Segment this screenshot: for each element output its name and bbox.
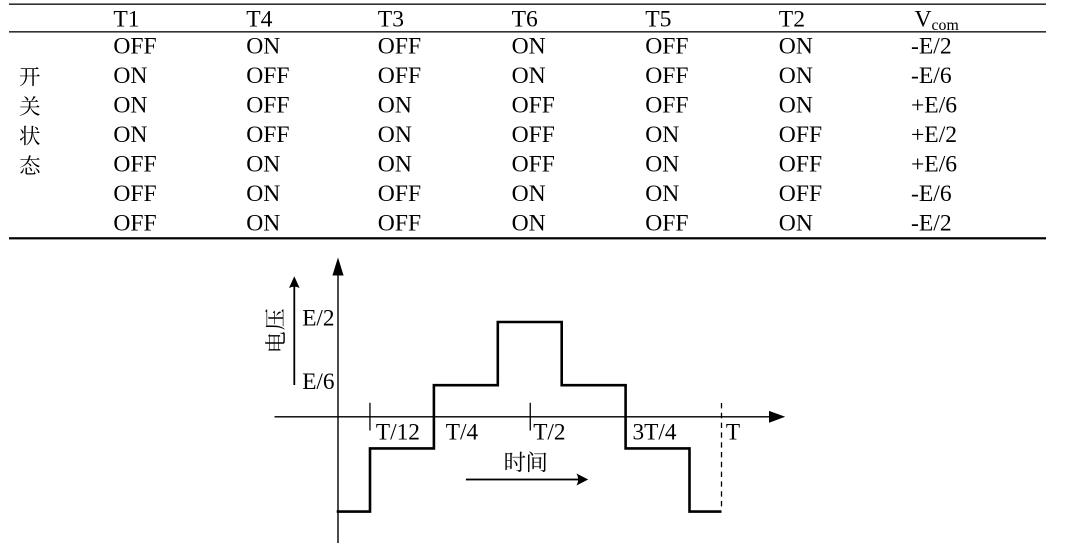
row label 状	[20, 126, 40, 146]
label 电压 char 电	[265, 332, 285, 350]
svg-text:+E/6: +E/6	[911, 152, 957, 178]
svg-text:-E/2: -E/2	[911, 210, 952, 236]
svg-text:3T/4: 3T/4	[633, 419, 677, 445]
svg-text:OFF: OFF	[246, 122, 289, 148]
x-axis line	[275, 416, 771, 417]
svg-text:ON: ON	[512, 181, 546, 207]
label 时间 char 时	[505, 452, 525, 472]
svg-text:T: T	[726, 419, 740, 445]
svg-text:OFF: OFF	[645, 210, 688, 236]
label 时间 char 间	[528, 451, 546, 472]
svg-text:ON: ON	[645, 122, 679, 148]
svg-text:OFF: OFF	[378, 34, 421, 60]
svg-text:-E/2: -E/2	[911, 34, 952, 60]
label 电压 char 压	[265, 309, 285, 329]
svg-text:-E/6: -E/6	[911, 181, 952, 207]
svg-text:ON: ON	[645, 152, 679, 178]
svg-text:ON: ON	[512, 63, 546, 89]
svg-text:T5: T5	[645, 6, 671, 32]
svg-text:OFF: OFF	[378, 210, 421, 236]
svg-text:ON: ON	[113, 122, 147, 148]
svg-text:OFF: OFF	[113, 34, 156, 60]
svg-text:T2: T2	[779, 6, 805, 32]
svg-text:T6: T6	[512, 6, 538, 32]
svg-text:ON: ON	[246, 181, 280, 207]
table bottom rule	[9, 237, 1046, 239]
svg-text:OFF: OFF	[645, 93, 688, 119]
svg-text:OFF: OFF	[779, 152, 822, 178]
svg-text:OFF: OFF	[645, 63, 688, 89]
y-axis line	[337, 272, 338, 543]
svg-text:ON: ON	[779, 34, 813, 60]
svg-text:E/6: E/6	[302, 369, 334, 395]
svg-text:OFF: OFF	[113, 210, 156, 236]
svg-text:OFF: OFF	[779, 122, 822, 148]
svg-text:ON: ON	[645, 181, 679, 207]
svg-text:ON: ON	[113, 93, 147, 119]
svg-text:ON: ON	[512, 210, 546, 236]
svg-text:OFF: OFF	[113, 152, 156, 178]
svg-text:ON: ON	[246, 152, 280, 178]
svg-text:ON: ON	[113, 63, 147, 89]
svg-text:+E/6: +E/6	[911, 93, 957, 119]
svg-text:OFF: OFF	[512, 152, 555, 178]
svg-text:ON: ON	[246, 34, 280, 60]
svg-text:T3: T3	[378, 6, 404, 32]
table header rule	[9, 31, 1046, 32]
svg-text:OFF: OFF	[246, 93, 289, 119]
y-axis arrowhead	[332, 258, 343, 276]
svg-text:ON: ON	[378, 93, 412, 119]
svg-text:OFF: OFF	[645, 34, 688, 60]
x-axis arrowhead	[769, 411, 785, 423]
svg-text:T4: T4	[246, 6, 272, 32]
svg-text:OFF: OFF	[378, 181, 421, 207]
svg-text:ON: ON	[378, 152, 412, 178]
svg-text:T/2: T/2	[533, 419, 565, 445]
dashed line at T	[721, 403, 723, 507]
row label 开	[20, 67, 40, 86]
table top rule	[9, 4, 1046, 5]
svg-text:-E/6: -E/6	[911, 63, 952, 89]
svg-text:ON: ON	[779, 63, 813, 89]
svg-text:T/4: T/4	[446, 419, 479, 445]
svg-text:OFF: OFF	[512, 122, 555, 148]
svg-text:T/12: T/12	[376, 419, 420, 445]
waveform staircase	[337, 322, 722, 512]
tick T/12	[369, 403, 370, 431]
svg-text:OFF: OFF	[246, 63, 289, 89]
svg-text:ON: ON	[246, 210, 280, 236]
svg-text:T1: T1	[113, 6, 139, 32]
row label 态	[20, 155, 40, 174]
svg-text:ON: ON	[512, 34, 546, 60]
svg-text:OFF: OFF	[779, 181, 822, 207]
svg-text:Vcom: Vcom	[915, 6, 960, 34]
svg-text:E/2: E/2	[302, 306, 334, 332]
svg-text:ON: ON	[779, 93, 813, 119]
svg-text:OFF: OFF	[512, 93, 555, 119]
svg-text:ON: ON	[779, 210, 813, 236]
svg-text:+E/2: +E/2	[911, 122, 957, 148]
voltage axis annotation arrow	[293, 286, 295, 385]
svg-text:ON: ON	[378, 122, 412, 148]
svg-text:OFF: OFF	[378, 63, 421, 89]
svg-text:OFF: OFF	[113, 181, 156, 207]
tick T/2	[530, 403, 531, 431]
time annotation arrow	[466, 479, 579, 481]
row label 关	[20, 96, 40, 116]
